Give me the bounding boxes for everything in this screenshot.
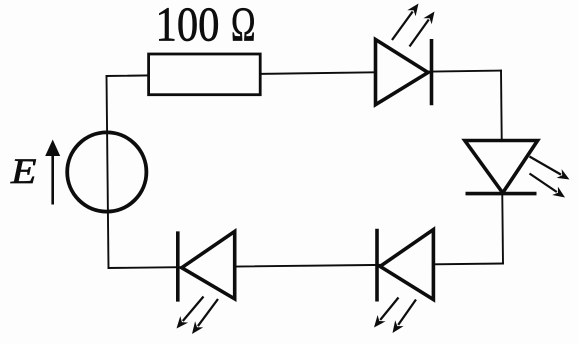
wire top — [107, 71, 502, 76]
LED D3 light arrows — [177, 297, 219, 335]
LED D1 light arrows — [392, 4, 435, 47]
wire left — [107, 76, 109, 268]
LED D4 light arrows — [374, 298, 416, 334]
svg-text:100: 100 — [156, 0, 220, 52]
LED D3 — [178, 231, 235, 301]
emf direction arrow — [45, 140, 60, 205]
wire bottom — [109, 264, 504, 269]
resistor 100 ohm — [149, 54, 261, 95]
LED D1 — [376, 39, 432, 105]
svg-text:E: E — [10, 151, 37, 191]
svg-text:Ω: Ω — [231, 0, 256, 52]
LED D2 light arrows — [530, 157, 570, 198]
LED D4 — [377, 229, 433, 302]
wire right — [501, 71, 503, 264]
voltage source E — [67, 132, 146, 211]
LED D2 — [465, 141, 538, 194]
